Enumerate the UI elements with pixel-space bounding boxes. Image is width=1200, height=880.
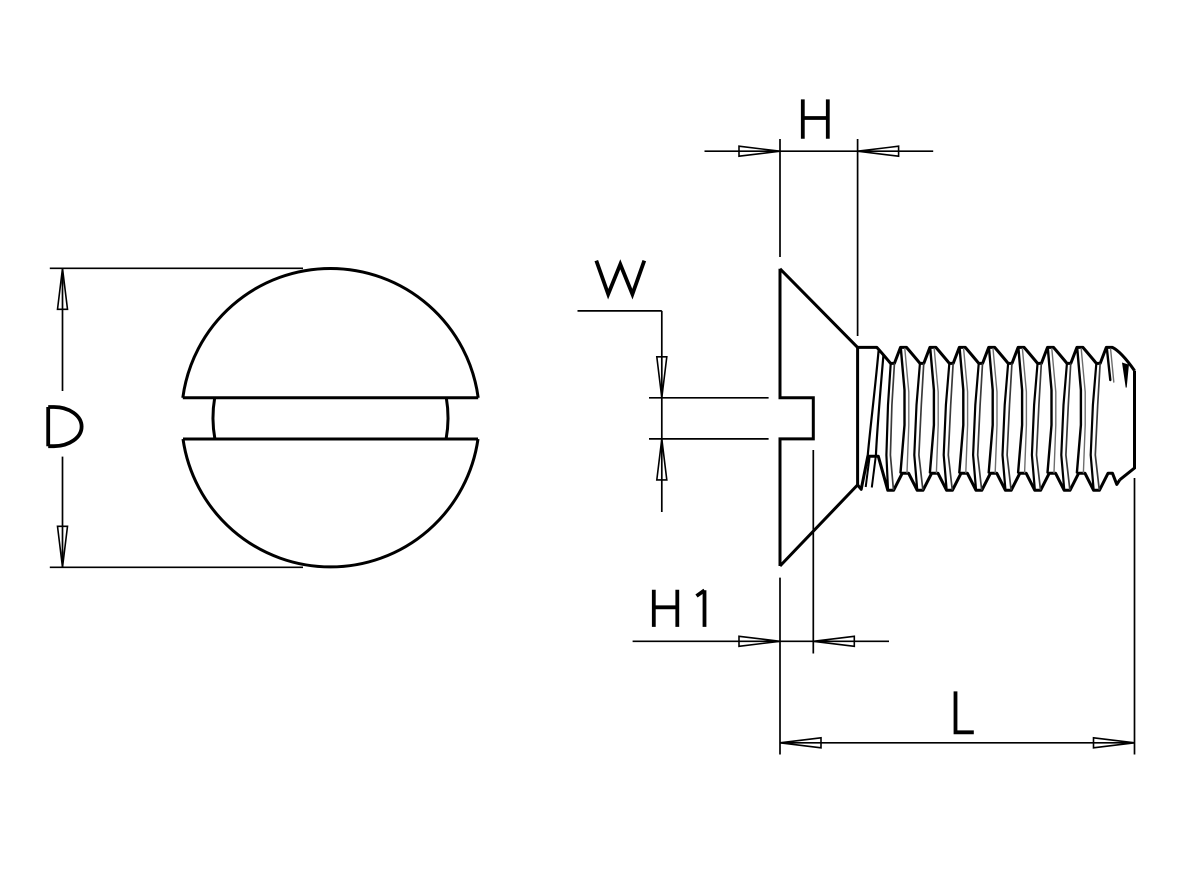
thread root line 2 <box>978 364 983 489</box>
thread crest highlight line <box>934 349 938 473</box>
head-shank junction edge <box>856 347 859 485</box>
screw head front view - bottom chord (slot lower edge) <box>183 438 478 441</box>
thread bottom profile <box>858 456 1120 490</box>
L right extension line <box>1134 478 1136 755</box>
H1 right extension line <box>812 450 814 654</box>
screw head front view - top arc <box>183 268 478 397</box>
thread root line 2 <box>1037 364 1042 489</box>
thread crest highlight line <box>993 349 997 473</box>
screw head front view - bottom arc <box>183 439 478 567</box>
thread crest highlight line <box>1052 349 1056 473</box>
thread root line <box>914 364 920 490</box>
slot top extension line <box>649 397 769 399</box>
thread root line 2 <box>948 364 953 489</box>
thread top profile <box>858 347 1135 370</box>
thread root line <box>1091 364 1097 490</box>
D dimension line lower segment <box>62 457 64 568</box>
thread crest stub <box>1107 348 1111 380</box>
label H1 <box>654 590 705 627</box>
thread crest line <box>1048 348 1052 473</box>
H1 arrow left <box>739 636 780 646</box>
run-out inner line a <box>866 458 870 488</box>
H dimension line <box>705 150 934 152</box>
H1 dimension line <box>633 640 889 642</box>
W leader horizontal <box>578 310 662 312</box>
thread crest line <box>930 348 934 473</box>
H arrow right <box>858 146 899 156</box>
thread run-out line left a <box>868 351 879 456</box>
first root line b <box>890 364 894 489</box>
H right extension line <box>857 139 859 336</box>
D arrow down <box>58 526 68 567</box>
L arrow left <box>780 738 821 748</box>
thread crest highlight line <box>1081 349 1085 473</box>
thread root line <box>973 364 979 490</box>
label W <box>596 261 644 295</box>
D dimension bottom extension line <box>50 566 303 568</box>
H left extension line <box>779 139 781 257</box>
first root line a <box>886 364 890 490</box>
thread crest line <box>901 348 905 473</box>
D dimension top extension line <box>50 267 303 269</box>
label D <box>48 407 81 446</box>
label L <box>956 691 974 732</box>
thread root line 2 <box>1095 364 1100 489</box>
W arrow down <box>657 357 667 398</box>
head bottom conical edge <box>780 485 858 566</box>
thread root line <box>1032 364 1038 490</box>
thread root line <box>1061 364 1067 490</box>
run-out inner line b <box>872 458 876 488</box>
thread root line 2 <box>919 364 924 489</box>
thread root line <box>944 364 950 490</box>
W arrow up <box>657 439 667 480</box>
slot floor arc right <box>446 398 448 439</box>
thread crest highlight line <box>1022 349 1026 473</box>
screw head front view - top chord (slot upper edge) <box>183 396 478 399</box>
slot bottom extension line <box>649 438 769 440</box>
thread root line 2 <box>1007 364 1012 489</box>
thread crest line <box>989 348 993 473</box>
H1 arrow right <box>813 636 854 646</box>
shank right end edge <box>1120 371 1135 480</box>
H1 left extension line <box>779 578 781 755</box>
head top conical edge <box>780 269 858 348</box>
thread crest line <box>1018 348 1022 473</box>
thread crest line <box>1077 348 1081 473</box>
L arrow right <box>1094 738 1135 748</box>
D arrow up <box>58 268 68 309</box>
label H <box>803 99 828 138</box>
D dimension line upper segment <box>62 268 64 391</box>
L dimension line <box>780 742 1135 744</box>
thread crest highlight line <box>964 349 968 473</box>
W leader vertical <box>661 311 663 512</box>
thread root line 2 <box>1066 364 1071 489</box>
thread crest highlight line <box>905 349 909 473</box>
thread run-out line left b <box>876 356 884 456</box>
thread run-out wedge right <box>1123 363 1129 387</box>
H arrow left <box>739 146 780 156</box>
slot floor arc left <box>213 398 215 439</box>
thread crest line <box>959 348 963 473</box>
thread root line <box>1003 364 1009 490</box>
head left face with slot notch <box>780 269 813 566</box>
thread crest stub 2 <box>1111 349 1114 382</box>
